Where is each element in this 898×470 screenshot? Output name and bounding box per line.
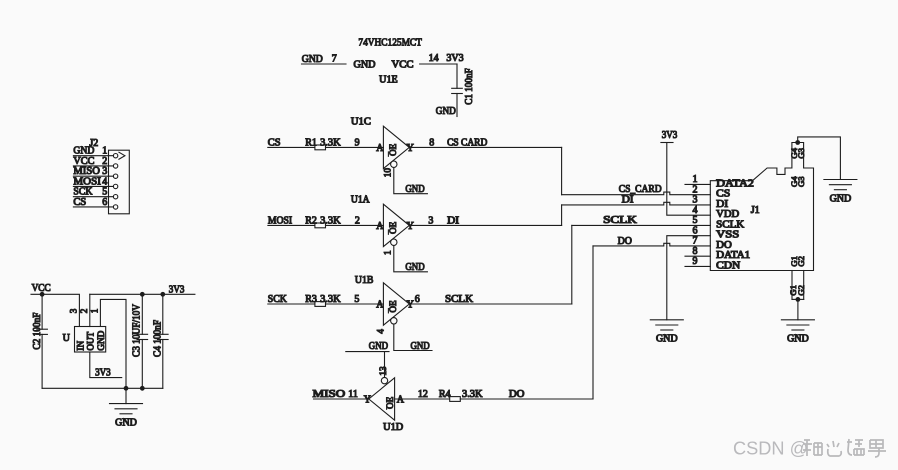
J1 pin numbers bbox=[693, 174, 698, 267]
svg-text:OE: OE bbox=[388, 143, 398, 156]
resistor R4 3.3K bbox=[439, 389, 483, 402]
svg-text:U1E: U1E bbox=[379, 75, 398, 86]
svg-text:Y: Y bbox=[407, 221, 414, 232]
ground top right bbox=[824, 180, 857, 205]
wire R1 to U1C pin 9 bbox=[326, 137, 385, 153]
wire OUT pin up bbox=[89, 294, 91, 326]
svg-text:IN: IN bbox=[75, 341, 85, 351]
svg-text:3: 3 bbox=[428, 215, 433, 226]
wire pin14 bbox=[420, 63, 457, 65]
resistor R3 3.3K bbox=[305, 294, 341, 306]
svg-text:3V3: 3V3 bbox=[169, 284, 185, 295]
svg-text:DI: DI bbox=[622, 194, 634, 205]
svg-text:4: 4 bbox=[376, 329, 386, 334]
svg-text:U1A: U1A bbox=[351, 195, 370, 206]
svg-text:9: 9 bbox=[355, 137, 360, 148]
svg-text:11: 11 bbox=[348, 389, 358, 400]
ground VSS bbox=[650, 320, 683, 345]
svg-text:GND: GND bbox=[405, 262, 424, 273]
node 3V3-C3 junction bbox=[140, 292, 145, 297]
svg-text:14: 14 bbox=[429, 53, 439, 64]
wire R4 to DO bbox=[460, 389, 593, 400]
svg-text:GND: GND bbox=[115, 417, 137, 428]
wire U1B output SCLK bbox=[409, 294, 572, 305]
wire U1C OE pin10 to GND bbox=[394, 168, 428, 196]
svg-text:9: 9 bbox=[693, 256, 698, 267]
wire U1A OE pin1 to GND bbox=[394, 246, 428, 274]
svg-text:GND: GND bbox=[656, 334, 678, 345]
wire CS_CARD to J1 pin2 (hop over 3V3) bbox=[562, 192, 711, 195]
svg-text:74VHC125MCT: 74VHC125MCT bbox=[358, 37, 422, 49]
svg-text:C1 100nF: C1 100nF bbox=[464, 68, 475, 105]
svg-text:MISO: MISO bbox=[313, 389, 346, 400]
svg-text:3.3K: 3.3K bbox=[462, 389, 483, 400]
capacitor C3 10UF/10V bbox=[132, 294, 148, 388]
svg-text:DO: DO bbox=[509, 389, 525, 400]
watermark CSDN bbox=[733, 439, 886, 459]
svg-text:OE: OE bbox=[388, 300, 398, 313]
svg-text:CS CARD: CS CARD bbox=[447, 138, 487, 149]
svg-text:U1D: U1D bbox=[383, 422, 403, 433]
svg-text:1: 1 bbox=[89, 308, 99, 313]
svg-text:3V3: 3V3 bbox=[446, 53, 463, 64]
svg-text:CS: CS bbox=[268, 137, 281, 148]
wire J1 pin9 stub bbox=[685, 265, 710, 267]
wire DI vertical bbox=[561, 205, 563, 226]
wire R3 to U1B pin 5 bbox=[326, 294, 385, 310]
J1 pins G1 G2 block bbox=[788, 256, 806, 299]
svg-text:VCC: VCC bbox=[392, 60, 414, 71]
svg-text:R4: R4 bbox=[439, 389, 451, 400]
svg-text:SCLK: SCLK bbox=[603, 215, 638, 226]
svg-text:3V3: 3V3 bbox=[662, 130, 678, 141]
node rail-regGND junction bbox=[124, 386, 129, 391]
power port 3V3 bbox=[661, 130, 677, 142]
wire CS_CARD vertical bbox=[561, 147, 563, 194]
svg-text:DO: DO bbox=[618, 236, 632, 247]
svg-text:2: 2 bbox=[79, 308, 89, 313]
svg-text:R2: R2 bbox=[305, 215, 317, 226]
J2 pin1 arrow bbox=[119, 152, 125, 159]
net label MISO pin11 bbox=[313, 389, 358, 400]
svg-text:G3: G3 bbox=[796, 148, 806, 159]
svg-text:Y: Y bbox=[407, 299, 414, 310]
resistor R2 3.3K bbox=[305, 215, 341, 227]
J1 pin names bbox=[716, 178, 754, 271]
wire U1D OE pin13 to GND bbox=[346, 341, 389, 378]
svg-text:R3: R3 bbox=[305, 294, 317, 305]
wire J2 pin2 VCC bbox=[73, 156, 117, 168]
wire J2 pin3 MISO bbox=[73, 166, 117, 178]
wire bottom GND rail bbox=[42, 387, 163, 389]
ground regulator bbox=[110, 404, 143, 429]
wire DO vertical bbox=[592, 246, 594, 399]
svg-text:GND: GND bbox=[96, 330, 106, 350]
svg-text:8: 8 bbox=[429, 137, 434, 148]
op-amp buffer U1C bbox=[351, 117, 414, 178]
svg-text:GND: GND bbox=[787, 334, 809, 345]
wire R2 to U1A pin 2 bbox=[326, 215, 385, 231]
connector J1 body bbox=[710, 143, 813, 271]
svg-text:MOSI: MOSI bbox=[268, 215, 292, 226]
svg-text:U1B: U1B bbox=[355, 275, 374, 286]
svg-text:13: 13 bbox=[378, 366, 388, 376]
svg-text:CSDN @: CSDN @ bbox=[733, 439, 808, 459]
wire MOSI input bbox=[268, 224, 315, 226]
svg-text:R1: R1 bbox=[305, 137, 317, 148]
svg-text:GND: GND bbox=[830, 193, 852, 204]
wire SCLK vertical bbox=[571, 225, 573, 304]
svg-text:3: 3 bbox=[68, 308, 78, 313]
svg-text:Y: Y bbox=[364, 394, 371, 405]
wire CS input bbox=[268, 146, 315, 148]
svg-text:1: 1 bbox=[382, 250, 392, 255]
J1 pins G4 G3 block bbox=[789, 147, 806, 187]
svg-text:10: 10 bbox=[382, 168, 392, 178]
wire 3V3 to J1 pin4 VDD bbox=[667, 143, 711, 216]
svg-text:U1C: U1C bbox=[351, 117, 371, 128]
wire U1D input pin12 bbox=[395, 389, 450, 400]
node rail-C3 junction bbox=[140, 386, 145, 391]
wire VSS to ground bbox=[667, 236, 711, 320]
wire U1C output CS CARD bbox=[409, 137, 561, 148]
wire J1 pin8 stub bbox=[685, 255, 710, 257]
svg-text:3V3: 3V3 bbox=[95, 367, 111, 378]
wire MISO output bbox=[314, 398, 369, 400]
node G4G3 junction bbox=[795, 140, 800, 145]
regulator U bbox=[63, 308, 106, 352]
svg-text:GND: GND bbox=[405, 184, 424, 195]
svg-text:3.3K: 3.3K bbox=[320, 215, 341, 226]
capacitor C1 100nF bbox=[436, 64, 475, 117]
wire J2 pin4 MOSI bbox=[73, 176, 117, 188]
wire SCLK to J1 pin5 bbox=[572, 224, 711, 226]
svg-text:6: 6 bbox=[415, 294, 420, 305]
node G1G2 junction bbox=[796, 297, 801, 302]
connector J2 bbox=[89, 138, 129, 214]
wire SCK input bbox=[268, 303, 315, 305]
op-amp buffer U1D (mirrored) bbox=[364, 366, 405, 433]
wire DI to J1 pin3 (hop over 3V3) bbox=[562, 202, 711, 205]
wire GND stem bbox=[125, 388, 127, 403]
svg-text:GND: GND bbox=[411, 341, 430, 352]
wire 3V3 rail bbox=[90, 293, 195, 295]
svg-text:C2 100nF: C2 100nF bbox=[32, 312, 43, 349]
svg-text:C4 100nF: C4 100nF bbox=[152, 320, 163, 357]
node 3V3-C4 junction bbox=[160, 292, 165, 297]
svg-text:Y: Y bbox=[407, 143, 414, 154]
svg-text:CS: CS bbox=[73, 197, 86, 208]
svg-text:G3: G3 bbox=[796, 176, 806, 187]
svg-text:3.3K: 3.3K bbox=[320, 294, 341, 305]
svg-text:SCLK: SCLK bbox=[445, 294, 474, 305]
wire regulator OUT tab to 3V3 label bbox=[90, 352, 122, 378]
svg-text:GND: GND bbox=[369, 341, 388, 352]
svg-text:GND: GND bbox=[302, 54, 323, 65]
wire U1B OE pin4 to GND bbox=[394, 324, 432, 352]
op-amp buffer U1B bbox=[355, 275, 414, 334]
svg-text:12: 12 bbox=[418, 389, 428, 400]
svg-text:C3 10UF/10V: C3 10UF/10V bbox=[132, 303, 143, 357]
svg-text:G2: G2 bbox=[796, 285, 806, 296]
svg-text:GND: GND bbox=[354, 60, 376, 71]
wire J2 pin5 SCK bbox=[73, 187, 117, 199]
resistor R1 3.3K bbox=[305, 137, 341, 149]
svg-text:3.3K: 3.3K bbox=[320, 137, 341, 148]
capacitor C2 100nF bbox=[32, 294, 48, 388]
svg-text:OE: OE bbox=[388, 221, 398, 234]
svg-text:G2: G2 bbox=[796, 256, 806, 267]
wire J2 pin1 GND bbox=[73, 146, 117, 158]
IC U1E power pins 74VHC125MCT bbox=[302, 37, 464, 86]
svg-text:GND: GND bbox=[436, 106, 456, 117]
ground bottom right bbox=[781, 320, 814, 345]
svg-text:2: 2 bbox=[355, 215, 360, 226]
wire J2 pin6 CS bbox=[73, 197, 117, 209]
svg-text:7: 7 bbox=[332, 54, 337, 65]
svg-text:U: U bbox=[63, 333, 71, 344]
wire G4G3 to GND bbox=[798, 137, 841, 180]
wire pin7 bbox=[302, 63, 347, 65]
svg-text:OUT: OUT bbox=[86, 331, 96, 350]
wire U1A output DI bbox=[409, 215, 561, 226]
svg-text:SCK: SCK bbox=[268, 294, 288, 305]
wire J1 pin1 stub bbox=[685, 183, 710, 185]
capacitor C4 100nF bbox=[152, 294, 168, 388]
svg-text:A: A bbox=[397, 394, 405, 405]
wire DO to J1 pin7 (hop over VSS) bbox=[593, 243, 710, 246]
svg-text:6: 6 bbox=[102, 197, 107, 208]
wire G1G2 to GND bbox=[797, 299, 799, 319]
svg-text:5: 5 bbox=[354, 294, 359, 305]
svg-text:CDN: CDN bbox=[716, 260, 740, 271]
svg-text:J1: J1 bbox=[751, 205, 760, 216]
wire regulator GND pin to bottom rail bbox=[100, 299, 126, 388]
wire VCC rail bbox=[31, 294, 79, 326]
op-amp buffer U1A bbox=[351, 195, 414, 255]
node VCC-C2 junction bbox=[40, 292, 45, 297]
svg-text:DI: DI bbox=[447, 215, 459, 226]
